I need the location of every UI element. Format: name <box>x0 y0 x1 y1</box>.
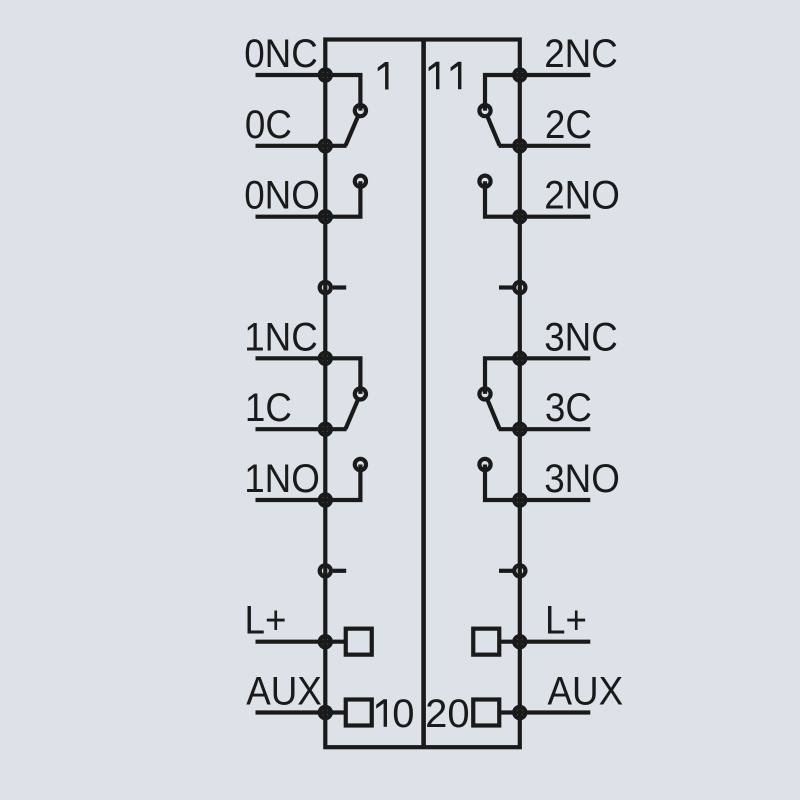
wire 3NC <box>485 358 590 394</box>
left spare terminal 1 stub <box>333 285 346 289</box>
contact 0 lever <box>346 116 359 145</box>
wire left AUX <box>256 710 346 714</box>
right terminal L+ <box>514 636 525 647</box>
contact 3 pivot circle <box>479 388 490 399</box>
wire 0NC <box>256 75 361 111</box>
wire right L+ <box>499 640 590 644</box>
svg-text:2C: 2C <box>545 102 592 147</box>
terminal 0C <box>320 140 331 151</box>
pin number 10 digit 1 <box>376 699 387 727</box>
left spare terminal 2 <box>320 565 331 576</box>
svg-text:2NC: 2NC <box>544 32 618 77</box>
left terminal L+ <box>320 636 331 647</box>
terminal 0NC <box>320 69 331 80</box>
svg-text:L+: L+ <box>245 598 287 643</box>
svg-text:0NC: 0NC <box>244 32 318 77</box>
wire 2NC <box>485 75 590 111</box>
right spare terminal 2 <box>514 565 525 576</box>
wire 1NO <box>256 465 361 501</box>
svg-text:20: 20 <box>425 692 470 736</box>
module center divider <box>421 40 426 748</box>
svg-text:L+: L+ <box>545 598 587 643</box>
svg-text:1NC: 1NC <box>244 315 318 360</box>
contact 0 pivot circle <box>355 105 366 116</box>
right spare terminal 1 stub <box>499 285 513 289</box>
wire left L+ <box>256 640 346 644</box>
right AUX square <box>473 700 499 726</box>
terminal 3NO <box>514 494 525 505</box>
contact 0 NO circle <box>355 176 366 187</box>
wire 0C <box>256 144 347 148</box>
wire 0NO <box>256 181 361 217</box>
wire right AUX <box>499 710 590 714</box>
left terminal AUX <box>320 707 331 718</box>
svg-text:3NC: 3NC <box>544 315 618 360</box>
svg-text:0: 0 <box>392 692 414 736</box>
terminal 2NC <box>514 69 525 80</box>
module body outline <box>325 40 520 748</box>
terminal 1NO <box>320 494 331 505</box>
terminal 1NC <box>320 353 331 364</box>
terminal 2C <box>514 140 525 151</box>
left spare terminal 1 <box>320 282 331 293</box>
terminal 1C <box>320 424 331 435</box>
svg-text:1NO: 1NO <box>244 457 320 502</box>
wire 2C <box>499 144 591 148</box>
svg-text:AUX: AUX <box>548 669 624 714</box>
svg-text:AUX: AUX <box>246 669 322 714</box>
contact 2 lever <box>487 116 499 145</box>
wire 1NC <box>256 358 361 394</box>
wire 3NO <box>485 465 590 501</box>
svg-text:3C: 3C <box>545 386 592 431</box>
contact 1 lever <box>346 400 359 429</box>
contact 1 NO circle <box>355 459 366 470</box>
pin number 11 digit 2 <box>451 62 462 90</box>
wire 1C <box>256 427 347 431</box>
contact 3 NO circle <box>479 459 490 470</box>
contact 3 lever <box>487 400 499 429</box>
svg-text:1C: 1C <box>245 386 292 431</box>
right spare terminal 2 stub <box>499 569 513 573</box>
svg-text:0NO: 0NO <box>244 173 320 218</box>
wire 3C <box>499 427 591 431</box>
svg-text:0C: 0C <box>245 102 292 147</box>
right terminal AUX <box>514 707 525 718</box>
contact 2 NO circle <box>479 176 490 187</box>
pin number 1 <box>378 62 389 90</box>
pin number 11 digit 1 <box>429 62 440 90</box>
contact 2 pivot circle <box>479 105 490 116</box>
svg-text:3NO: 3NO <box>544 457 620 502</box>
terminal 3C <box>514 424 525 435</box>
terminal 2NO <box>514 211 525 222</box>
left AUX square <box>346 700 372 726</box>
left L+ square <box>346 629 372 655</box>
contact 1 pivot circle <box>355 388 366 399</box>
terminal 3NC <box>514 353 525 364</box>
right spare terminal 1 <box>514 282 525 293</box>
wire 2NO <box>485 181 590 217</box>
svg-text:2NO: 2NO <box>544 173 620 218</box>
right L+ square <box>473 629 499 655</box>
left spare terminal 2 stub <box>333 569 346 573</box>
terminal 0NO <box>320 211 331 222</box>
